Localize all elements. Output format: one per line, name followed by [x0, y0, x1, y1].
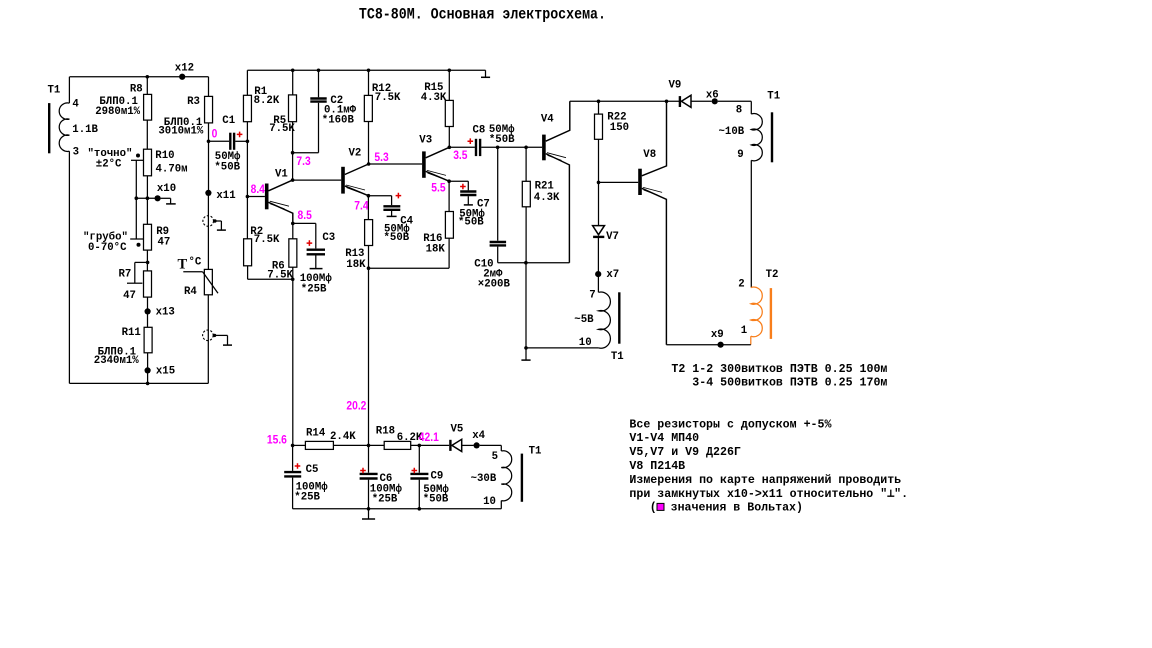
wire x10 row [136, 197, 160, 199]
wire V1 base [247, 196, 265, 198]
T1 core bar 10V [771, 112, 773, 162]
resistor R3 [208, 77, 210, 97]
wire R13 to R16 [369, 267, 450, 269]
svg-text:ТС8-80М. Основная электросхема: ТС8-80М. Основная электросхема. [359, 6, 606, 23]
svg-text:~5В: ~5В [574, 314, 594, 326]
svg-text:8.4: 8.4 [251, 183, 266, 196]
svg-text:7: 7 [589, 289, 595, 301]
svg-text:4.3K: 4.3K [534, 192, 560, 204]
svg-text:47: 47 [123, 290, 136, 302]
resistor R22 [598, 101, 600, 114]
svg-text:7.4: 7.4 [354, 200, 369, 213]
svg-text:1.1В: 1.1В [72, 124, 98, 136]
svg-text:( значения в Вольтах): ( значения в Вольтах) [650, 500, 803, 514]
svg-text:0-70°C: 0-70°C [88, 242, 127, 254]
junction V2 emitter node [367, 194, 371, 198]
svg-text:T1: T1 [48, 84, 61, 96]
junction C6 top [367, 444, 371, 448]
svg-text:R21: R21 [535, 181, 554, 193]
svg-text:R14: R14 [306, 428, 326, 440]
probe circle x11 [207, 193, 209, 227]
wire w5V bottom [526, 347, 598, 349]
glyph up-tack in note [887, 490, 894, 497]
svg-text:Т2 1-2 300витков ПЭТВ 0.25 100: Т2 1-2 300витков ПЭТВ 0.25 100м [671, 362, 887, 376]
svg-text:*50В: *50В [458, 217, 484, 229]
resistor R9 [144, 224, 152, 250]
svg-text:x4: x4 [472, 430, 485, 442]
svg-text:T1: T1 [529, 446, 542, 458]
svg-text:3-4 500витков ПЭТВ 0.25 170м: 3-4 500витков ПЭТВ 0.25 170м [692, 375, 887, 389]
resistor R12 [368, 70, 370, 95]
svg-text:*25В: *25В [372, 494, 398, 506]
label 7.3 magenta [296, 155, 310, 168]
svg-text:0: 0 [212, 128, 218, 141]
svg-text:10: 10 [483, 496, 496, 508]
junction rail R5 [291, 68, 295, 72]
svg-text:x10: x10 [157, 183, 176, 195]
junction ground w5V [524, 346, 528, 350]
junction R22 bottom [597, 181, 601, 185]
svg-text:18K: 18K [346, 259, 366, 271]
svg-text:R7: R7 [119, 268, 132, 280]
resistor R1 [246, 70, 248, 95]
svg-text:42.1: 42.1 [419, 431, 440, 444]
svg-text:2.4K: 2.4K [330, 431, 356, 443]
note resistors tolerance [629, 417, 832, 431]
svg-text:x11: x11 [216, 190, 235, 202]
wire x4 to winding5 [480, 444, 502, 446]
svg-text:~30В: ~30В [471, 473, 497, 485]
junction R7 top [146, 250, 148, 271]
resistor R6 [292, 223, 294, 238]
resistor R15 [448, 70, 450, 100]
capacitor C5 [292, 445, 294, 471]
diode V7 [593, 226, 605, 235]
junction R8 top [146, 75, 150, 79]
svg-text:V5,V7 и V9 Д226Г: V5,V7 и V9 Д226Г [629, 445, 740, 459]
svg-text:T1: T1 [767, 91, 780, 103]
node x13 [147, 297, 149, 327]
svg-text:2980м1%: 2980м1% [95, 106, 140, 118]
svg-text:8.2K: 8.2K [254, 95, 280, 107]
transistor V4 [542, 135, 546, 161]
transformer T1 winding 30V [500, 445, 502, 451]
svg-text:V4: V4 [541, 114, 554, 126]
svg-text:8.5: 8.5 [298, 209, 313, 222]
junction C9 bottom [418, 507, 422, 511]
plus C4 [396, 193, 402, 199]
thermistor R4 [204, 269, 212, 294]
svg-text:7.5K: 7.5K [269, 123, 295, 135]
label 0 magenta [212, 128, 218, 141]
transformer T1 winding 1.1V [68, 77, 70, 103]
label 5.3 magenta [374, 151, 388, 164]
transistor V1 [265, 184, 269, 210]
plus C1 [237, 132, 243, 138]
junction V1 collector [291, 178, 295, 182]
svg-text:4: 4 [72, 98, 79, 110]
wire R18 to V5 [411, 444, 450, 446]
label 42.1 magenta [419, 431, 440, 444]
svg-text:R3: R3 [187, 96, 200, 108]
svg-text:x6: x6 [706, 90, 719, 102]
plus C9 [412, 468, 418, 474]
resistor R14 [305, 441, 333, 449]
svg-text:Все резисторы с допуском +-5%: Все резисторы с допуском +-5% [629, 417, 832, 431]
svg-text:C9: C9 [431, 470, 444, 482]
svg-text:15.6: 15.6 [267, 434, 287, 447]
node x9 [718, 342, 724, 348]
resistor R21 [525, 147, 527, 181]
svg-text:3010м1%: 3010м1% [158, 125, 203, 137]
svg-text:2340м1%: 2340м1% [94, 355, 139, 367]
svg-text:при замкнутых x10->x11 относит: при замкнутых x10->x11 относительно " ". [629, 487, 908, 501]
transistor V2 [341, 167, 345, 194]
node x7 [597, 237, 599, 292]
label 8.4 magenta [251, 183, 266, 196]
junction C5 top [291, 444, 295, 448]
junction C6 bottom [367, 507, 371, 511]
note V1-V4 [629, 431, 699, 445]
wire tochno bracket [131, 159, 143, 161]
svg-text:*25В: *25В [301, 284, 327, 296]
svg-text:x15: x15 [156, 366, 175, 378]
diode V9 [679, 96, 681, 107]
junction V8 collector rail [665, 100, 669, 104]
note measurements line1 [629, 473, 901, 487]
T1 core bar left [48, 103, 50, 153]
wire left-block bottom [69, 382, 208, 384]
capacitor C6 [368, 445, 370, 472]
plus C8 [468, 138, 474, 144]
svg-text:~10В: ~10В [719, 126, 745, 138]
svg-text:×200В: ×200В [478, 278, 511, 290]
junction rail C2 [317, 68, 321, 72]
wire R14 row left [293, 444, 306, 446]
junction R11 bottom [146, 382, 150, 386]
note V8 [629, 459, 685, 473]
junction C1 left [207, 140, 211, 144]
svg-text:18K: 18K [426, 243, 446, 255]
svg-text:7.5K: 7.5K [267, 269, 293, 281]
T1 core bar 30V [521, 454, 523, 502]
wire R21 column down [525, 263, 527, 348]
svg-text:*160В: *160В [322, 114, 355, 126]
svg-text:V1: V1 [275, 168, 288, 180]
capacitor C9 [418, 445, 420, 472]
capacitor C4 [368, 195, 391, 197]
wire amplifier top rail [247, 69, 485, 71]
svg-text:7.5K: 7.5K [254, 234, 280, 246]
note T2 winding data line1 [671, 362, 887, 376]
note V5 V7 V9 [629, 445, 740, 459]
resistor R2 [244, 239, 252, 266]
wire T2 bottom [666, 344, 750, 346]
svg-text:R4: R4 [184, 286, 197, 298]
plus C7 [460, 184, 466, 190]
svg-text:V2: V2 [349, 148, 362, 160]
svg-text:x13: x13 [156, 306, 175, 318]
svg-text:7.5K: 7.5K [375, 92, 401, 104]
junction V3 collector [448, 146, 452, 150]
svg-text:5.3: 5.3 [374, 151, 388, 164]
ground tick R21 [525, 348, 527, 360]
wire V2 collector to V3 base [369, 163, 423, 165]
svg-text:T2: T2 [766, 269, 779, 281]
junction C2 bottom wire [291, 151, 295, 155]
junction rail R15 [448, 68, 452, 72]
ground tick x10 [161, 197, 171, 199]
node x4 [462, 444, 474, 446]
capacitor C1 [209, 140, 230, 142]
junction R6 bottom [291, 278, 295, 282]
wire R7 bracket [135, 261, 148, 263]
junction C9 top [418, 444, 422, 448]
node x11 [205, 190, 211, 196]
wire grubo bracket [135, 198, 137, 239]
capacitor C3 [293, 222, 316, 224]
plus C6 [360, 468, 366, 474]
svg-text:4.3K: 4.3K [421, 92, 447, 104]
junction C10 top [496, 146, 500, 150]
title [359, 6, 606, 23]
wire R14 to R18 [333, 444, 384, 446]
svg-text:9: 9 [737, 149, 743, 161]
svg-text:R8: R8 [130, 83, 143, 95]
svg-text:20.2: 20.2 [346, 400, 366, 413]
svg-text:1: 1 [741, 325, 747, 337]
svg-text:V5: V5 [451, 424, 464, 436]
svg-text:±2°C: ±2°C [96, 158, 122, 170]
svg-text:V8 П214В: V8 П214В [629, 459, 685, 473]
junction V1 emitter node [291, 222, 295, 226]
node x6 [712, 98, 718, 104]
svg-text:C8: C8 [473, 125, 486, 137]
wire left-block top rail [70, 76, 209, 78]
wire x6 to winding8 [718, 100, 752, 102]
node x12 [179, 74, 185, 80]
junction rail R12 [367, 68, 371, 72]
svg-text:10: 10 [579, 337, 592, 349]
label 3.5 magenta [453, 149, 468, 162]
ground tick rail end [485, 70, 487, 77]
svg-text:2: 2 [738, 279, 744, 291]
svg-text:x12: x12 [175, 62, 194, 74]
note T2 winding data line2 [692, 375, 887, 389]
resistor R7 [144, 271, 152, 297]
label 15.6 magenta [267, 434, 287, 447]
diode V5 [449, 440, 451, 451]
transistor V3 [422, 151, 426, 177]
junction C1 right [246, 140, 250, 144]
node x15 [147, 353, 149, 384]
svg-text:*50В: *50В [489, 134, 515, 146]
svg-text:R18: R18 [376, 426, 395, 438]
capacitor C10 [497, 147, 499, 240]
wire x11 to R4 [207, 226, 209, 269]
resistor R13 [367, 196, 369, 220]
svg-text:5.5: 5.5 [431, 182, 446, 195]
T2 core bar [770, 288, 772, 339]
ground symbol main [368, 509, 370, 519]
svg-text:8: 8 [736, 105, 742, 117]
label 20.2 magenta [346, 400, 366, 413]
junction V3 emitter node [447, 179, 451, 183]
svg-text:3: 3 [73, 146, 79, 158]
resistor R16 [448, 181, 450, 211]
label 7.4 magenta [354, 200, 369, 213]
plus C5 [295, 463, 301, 469]
magenta square legend [657, 503, 664, 510]
transformer T1 winding 5V [598, 292, 610, 348]
svg-text:150: 150 [610, 122, 629, 134]
svg-text:3.5: 3.5 [453, 149, 468, 162]
svg-text:V3: V3 [419, 135, 432, 147]
junction V1 base [246, 195, 250, 199]
svg-text:T: T [178, 256, 188, 272]
transistor V8 [638, 169, 642, 195]
note measurements line2 [629, 487, 908, 501]
svg-text:C3: C3 [322, 232, 335, 244]
svg-text:47: 47 [158, 237, 171, 249]
plus C3 [307, 240, 313, 246]
capacitor C8 [449, 146, 475, 148]
wire bottom supply [293, 508, 502, 510]
capacitor C7 [449, 180, 468, 182]
svg-text:°C: °C [189, 257, 202, 269]
svg-text:V8: V8 [643, 149, 656, 161]
capacitor C2 [318, 70, 320, 97]
label 8.5 magenta [298, 209, 313, 222]
label 5.5 magenta [431, 182, 446, 195]
node tap grubo [137, 243, 141, 247]
svg-text:7.3: 7.3 [296, 155, 310, 168]
resistor R5 [292, 70, 294, 95]
probe circle lower [207, 295, 209, 384]
junction R22 top [597, 100, 601, 104]
svg-text:4.70м: 4.70м [156, 164, 188, 176]
resistor R18 [384, 441, 411, 449]
resistor R11 [144, 327, 152, 353]
resistor R8 [146, 77, 148, 95]
svg-text:*50В: *50В [384, 232, 410, 244]
svg-text:x7: x7 [606, 269, 619, 281]
junction R21 bottom [524, 261, 528, 265]
wire output top rail [570, 100, 679, 102]
svg-text:V7: V7 [606, 231, 619, 243]
wire R2 bottom [247, 266, 249, 280]
svg-text:*25В: *25В [294, 491, 320, 503]
wire R13 node down [368, 268, 370, 445]
svg-text:*50В: *50В [423, 494, 449, 506]
svg-text:R10: R10 [155, 150, 174, 162]
wire V1 collector to V2 base [293, 179, 342, 181]
transformer T2 winding [751, 287, 762, 337]
svg-text:V9: V9 [669, 80, 682, 92]
junction R21 top [524, 146, 528, 150]
wire R5 to V1 collector [292, 122, 294, 180]
svg-text:C5: C5 [306, 464, 319, 476]
svg-text:x9: x9 [711, 329, 724, 341]
svg-text:*50В: *50В [214, 161, 240, 173]
T1 core bar 5V [618, 292, 620, 343]
node x10 [155, 195, 161, 201]
junction V2 collector [367, 162, 371, 166]
node tap tochno [136, 154, 140, 158]
svg-text:V1-V4 МП40: V1-V4 МП40 [629, 431, 699, 445]
wire R22 to V8 base [599, 181, 639, 183]
wire R1 to V1 base [246, 141, 248, 239]
svg-text:T1: T1 [611, 351, 624, 363]
svg-text:5: 5 [492, 451, 498, 463]
svg-text:R11: R11 [122, 327, 141, 339]
svg-text:C1: C1 [222, 115, 235, 127]
junction R13 bottom [367, 266, 371, 270]
note voltage values line [650, 500, 803, 514]
resistor R10 [144, 149, 152, 176]
transformer T1 winding 10V [750, 101, 752, 114]
svg-text:Измерения по карте напряжений: Измерения по карте напряжений проводить [629, 473, 901, 487]
